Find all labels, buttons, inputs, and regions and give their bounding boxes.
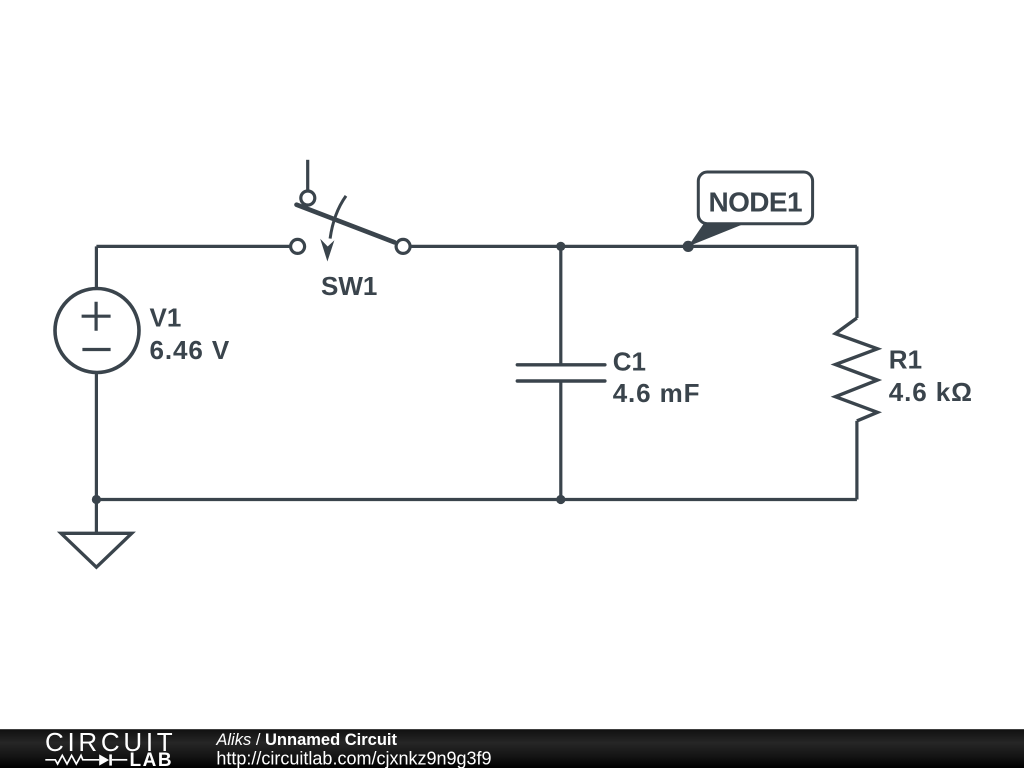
svg-text:V1: V1 <box>150 303 182 333</box>
capacitor C1 <box>517 365 605 381</box>
logo diode <box>99 754 127 765</box>
svg-text:4.6 mF: 4.6 mF <box>613 378 701 408</box>
svg-text:R1: R1 <box>889 345 922 375</box>
svg-text:LAB: LAB <box>130 750 174 768</box>
label C1 value <box>613 346 701 408</box>
junction dot at C1 top <box>556 242 565 251</box>
wire: R1 bottom lead (vertical) <box>855 421 858 500</box>
ground <box>61 533 132 567</box>
wire: top rail left segment to SW1 left terminal <box>96 245 290 248</box>
svg-text:NODE1: NODE1 <box>709 186 802 217</box>
resistor R1 <box>835 318 877 421</box>
wire: V1 bottom lead down to ground <box>95 373 98 533</box>
wire: bottom rail <box>96 498 857 501</box>
wire: R1 top lead (vertical) <box>855 246 858 318</box>
svg-text:SW1: SW1 <box>321 271 377 301</box>
wire: C1 top lead (vertical) <box>559 246 562 364</box>
voltage source V1 <box>55 289 139 373</box>
logo resistor zigzag <box>45 755 99 764</box>
wire: top rail right segment from SW1 right terminal to NODE1 and R1 corner <box>410 245 857 248</box>
node NODE1 callout <box>688 172 812 246</box>
label R1 value <box>889 345 973 407</box>
switch SW1 <box>291 160 411 262</box>
svg-text:4.6 kΩ: 4.6 kΩ <box>889 377 973 407</box>
label V1 value <box>150 303 231 365</box>
svg-text:C1: C1 <box>613 346 646 376</box>
svg-text:6.46 V: 6.46 V <box>150 335 231 365</box>
footer bar <box>0 729 1024 768</box>
node NODE1 dot <box>683 241 694 252</box>
wire: C1 bottom lead (vertical) <box>559 381 562 500</box>
wire: V1 top lead (vertical) <box>95 246 98 288</box>
junction dot at C1 bottom <box>556 495 565 504</box>
svg-text:Aliks / Unnamed Circuit: Aliks / Unnamed Circuit <box>215 731 397 749</box>
junction dot at V1 bottom rail <box>92 495 101 504</box>
svg-text:http://circuitlab.com/cjxnkz9n: http://circuitlab.com/cjxnkz9n9g3f9 <box>216 749 491 768</box>
